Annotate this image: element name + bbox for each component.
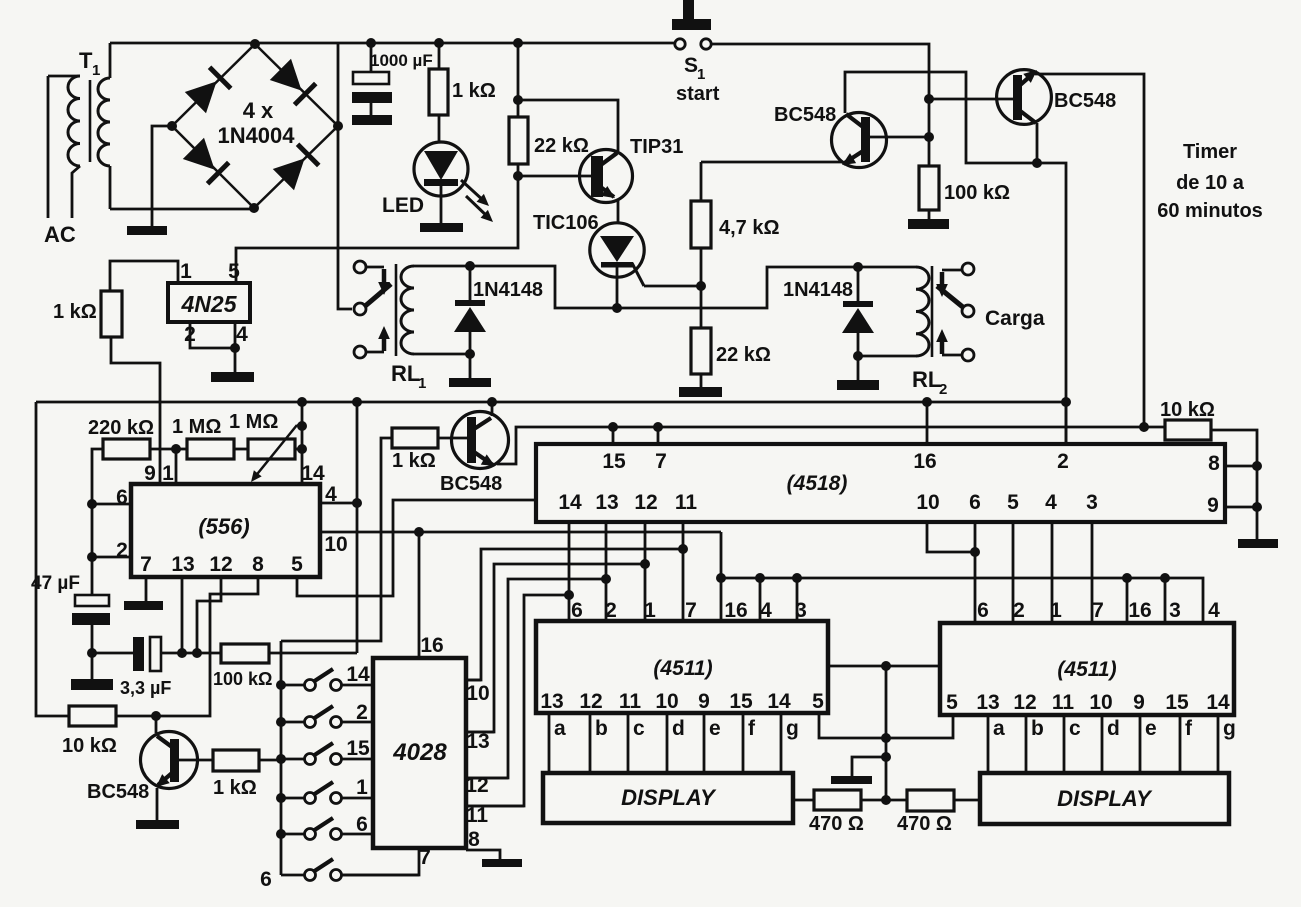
label 4511a bottom 15: [729, 690, 753, 713]
label 4518 bottom pin 5: [1007, 491, 1019, 514]
relay RL2 contact mid: [962, 305, 974, 317]
relay RL2 arm: [937, 286, 964, 308]
label 4028 pin8: [468, 828, 480, 851]
svg-text:(556): (556): [198, 514, 249, 539]
svg-text:10 kΩ: 10 kΩ: [1160, 399, 1215, 421]
label 4511b top 4: [1208, 599, 1220, 622]
wire 4518 pin16 up: [926, 402, 929, 444]
relay RL1 top lead arrow: [366, 267, 390, 295]
resistor R7 220k: [92, 439, 176, 595]
wire 4.7k to gate node: [700, 248, 703, 286]
wire Q4 base: [438, 437, 468, 440]
LED D5: [414, 142, 468, 223]
label 1 kOhm left: [53, 301, 97, 323]
wire 4511b pin3 up: [1164, 578, 1167, 623]
svg-text:f: f: [748, 717, 756, 740]
resistor R13 1k: [392, 428, 438, 448]
label 100 kOhm mid: [213, 669, 272, 689]
svg-text:2: 2: [605, 599, 617, 622]
wire 4518 pin13 to 4511 pin2: [605, 522, 608, 621]
wire 4N25 pin1 to 1k: [110, 261, 178, 291]
wire 4511b pin16 up: [1126, 578, 1129, 623]
label 4518 top pin 2: [1057, 450, 1069, 473]
node rail-556pin4: [352, 397, 362, 407]
svg-text:8: 8: [1208, 452, 1220, 475]
relay RL1 contact top: [354, 261, 366, 273]
svg-text:9: 9: [1133, 691, 1145, 714]
label 4028 pin13r: [466, 730, 489, 753]
label 4028 pin1: [356, 776, 368, 799]
wire 4511a segment g: [780, 713, 783, 773]
label 47uF: [31, 573, 80, 594]
switch S1 contacts: [675, 39, 711, 49]
svg-text:16: 16: [1128, 599, 1151, 622]
svg-text:14: 14: [301, 462, 325, 485]
svg-text:15: 15: [602, 450, 626, 473]
label 4028 pin10: [466, 682, 489, 705]
timer IC U2 556 box: [131, 484, 320, 577]
label 4028 pin11r: [466, 804, 489, 827]
label 3,3uF: [120, 678, 171, 698]
svg-text:b: b: [595, 717, 608, 740]
label 4518 pin9: [1207, 494, 1219, 517]
svg-text:4: 4: [236, 323, 248, 346]
wire S1 right rail: [711, 44, 929, 166]
switch S5 row 4: [281, 782, 373, 804]
wire 556 pin12 down: [197, 577, 221, 653]
wire 556 pin2: [92, 556, 131, 559]
svg-text:10 kΩ: 10 kΩ: [62, 735, 117, 757]
wire 556 pin10 bus: [320, 531, 721, 534]
resistor R6 100k: [919, 166, 939, 219]
wire bridge left node to ground: [152, 126, 172, 226]
node Q5 base node: [151, 711, 161, 721]
relay RL1 bottom arrow: [366, 326, 390, 352]
wire Q3 emitter top run: [1035, 74, 1144, 429]
svg-text:7: 7: [1092, 599, 1104, 622]
label 4511b bottom 12: [1013, 691, 1036, 714]
node rail-22k: [513, 38, 523, 48]
node mid vertical top: [881, 661, 891, 671]
wire 556 pin13 down: [181, 577, 184, 653]
node LT 4511a pin3: [792, 573, 802, 583]
svg-text:BC548: BC548: [87, 781, 149, 803]
wire 4511b pin5: [886, 715, 953, 738]
node bridge left: [167, 121, 177, 131]
svg-text:14: 14: [558, 491, 582, 514]
svg-text:1: 1: [1050, 599, 1062, 622]
ground under 1N4148 right: [837, 356, 879, 390]
label switch6: [260, 868, 272, 891]
relay RL1 arm: [364, 284, 391, 307]
node LT 4511a pin4: [755, 573, 765, 583]
ground under 22k2: [679, 387, 722, 397]
wire gate node to 22k2: [700, 286, 703, 328]
wire Q2 emitter to 4.7k: [701, 161, 843, 164]
label 4511b bottom 10: [1089, 691, 1112, 714]
bracket 4511 pin1 to 4028 pin13: [466, 564, 645, 732]
wire top rail: [255, 42, 675, 45]
node pin4: [352, 498, 362, 508]
label 4N25: [181, 291, 238, 317]
svg-text:9: 9: [698, 690, 710, 713]
label 4518 bottom pin 11: [675, 491, 698, 514]
wire rail to 556 pin4 down: [356, 402, 359, 653]
label 4028: [392, 739, 447, 766]
label 556 pin10: [324, 533, 347, 556]
svg-text:a: a: [993, 717, 1005, 740]
svg-text:a: a: [554, 717, 566, 740]
label 4028 pin6: [356, 813, 368, 836]
svg-text:6: 6: [969, 491, 981, 514]
resistor R10 100k: [221, 644, 269, 663]
ground under 4N25: [211, 372, 254, 382]
svg-text:15: 15: [729, 690, 753, 713]
label 4028 pin16: [420, 634, 443, 657]
wire 4N25 pin4: [234, 322, 237, 372]
capacitor 1000uF: [352, 43, 392, 115]
svg-text:1 kΩ: 1 kΩ: [213, 777, 257, 799]
wire 4511b segment a: [987, 715, 990, 773]
label 22 kOhm 2: [716, 344, 771, 366]
svg-text:3: 3: [795, 599, 807, 622]
wire secondary bottom to bridge: [110, 208, 254, 211]
label 4518 bottom pin 6: [969, 491, 981, 514]
label 4511a top 16: [724, 599, 747, 622]
node S1-BC548 base 2: [924, 132, 934, 142]
svg-text:(4518): (4518): [787, 472, 848, 495]
svg-text:16: 16: [724, 599, 747, 622]
switch S6 row 5: [281, 818, 373, 840]
ground 556 pin7: [124, 601, 163, 610]
wire 556 pin8 to base node: [156, 577, 258, 716]
wire rail to 556 pin14: [301, 402, 304, 484]
node rail-4518pin16: [922, 397, 932, 407]
node p13-p2: [601, 574, 611, 584]
AC label: [44, 222, 76, 247]
label 4511b top 16: [1128, 599, 1151, 622]
label segment b a: [595, 717, 608, 740]
label 1 MOhm 2: [229, 411, 278, 433]
svg-text:10: 10: [655, 690, 678, 713]
label 556 pin9: [144, 462, 156, 485]
wire 4N25 pin5 to 22k bottom: [236, 176, 518, 283]
ground under bridge: [127, 226, 167, 235]
node Q3 collector: [1032, 158, 1042, 168]
label 4511a bottom 12: [579, 690, 602, 713]
node rail-1000uF: [366, 38, 376, 48]
node rail-556pin14: [297, 397, 307, 407]
label 1N4148 left: [473, 279, 543, 301]
svg-text:11: 11: [619, 690, 642, 713]
svg-text:3: 3: [1169, 599, 1181, 622]
svg-text:100 kΩ: 100 kΩ: [213, 669, 272, 689]
label 4511a top 4: [760, 599, 772, 622]
wire emitter line to 4.7k: [700, 162, 703, 201]
label 4,7 kOhm: [719, 217, 780, 239]
svg-text:start: start: [676, 83, 720, 105]
resistor R15 470: [814, 790, 886, 810]
wire +V to RL1 common: [338, 43, 352, 309]
node 10k right vertical: [1139, 422, 1149, 432]
svg-text:2: 2: [116, 539, 128, 562]
label segment d b: [1107, 717, 1120, 740]
label segment d a: [672, 717, 685, 740]
wire 4511a segment f: [742, 713, 745, 773]
resistor R16 470: [886, 790, 980, 811]
relay RL1 contact bottom: [354, 346, 366, 358]
svg-text:10: 10: [466, 682, 489, 705]
label 4511b top 7: [1092, 599, 1104, 622]
bridge label 4 x: [243, 98, 274, 123]
label segment a a: [554, 717, 566, 740]
svg-text:9: 9: [1207, 494, 1219, 517]
node switch common 4: [276, 793, 286, 803]
wire 556 pin6: [92, 503, 131, 506]
label 4511b bottom 5: [946, 691, 958, 714]
wire Q3 base: [929, 98, 1014, 101]
relay RL1 coil: [401, 266, 414, 354]
svg-text:BC548: BC548: [774, 104, 836, 126]
label 4511a top 7: [685, 599, 697, 622]
label 60 minutos: [1157, 200, 1263, 222]
svg-text:g: g: [1223, 717, 1236, 740]
label 4028 pin14: [346, 663, 370, 686]
wire 4511b segment g: [1217, 715, 1220, 773]
svg-text:c: c: [633, 717, 645, 740]
wire secondary top to bridge: [110, 42, 255, 45]
svg-text:4: 4: [1045, 491, 1057, 514]
bracket 4511 pin6 to 4028 pin11: [466, 595, 569, 806]
counter IC U3 4518 box: [536, 444, 1225, 522]
wire 4028 pin11: [466, 805, 524, 808]
bridge rectifier diamond wires: [172, 44, 338, 208]
svg-text:9: 9: [144, 462, 156, 485]
wire commons to 1k3: [281, 438, 392, 641]
diode D7 1N4148: [842, 267, 874, 356]
label 4511a top 3: [795, 599, 807, 622]
wire 4518 pin8: [1225, 465, 1257, 468]
wire 4518 pin12 to 4511 pin1: [644, 522, 647, 621]
label 556 pin7: [140, 553, 152, 576]
label 4511a bottom 5: [812, 690, 824, 713]
wire 4511b segment f: [1179, 715, 1182, 773]
label 4511b top 6: [977, 599, 989, 622]
svg-text:f: f: [1185, 717, 1193, 740]
wire main rail: [36, 401, 1070, 404]
label segment e b: [1145, 717, 1157, 740]
svg-text:TIP31: TIP31: [630, 136, 683, 158]
node rail-Q4 collector: [487, 397, 497, 407]
node mid-470: [881, 795, 891, 805]
label (4518): [787, 472, 848, 495]
label 4511a bottom 10: [655, 690, 678, 713]
node LT 4511b pin3: [1160, 573, 1170, 583]
svg-text:Timer: Timer: [1183, 141, 1237, 163]
svg-text:14: 14: [767, 690, 791, 713]
label 1 kOhm Q4: [392, 450, 436, 472]
svg-text:DISPLAY: DISPLAY: [1057, 786, 1153, 811]
wire 4511a segment a: [548, 713, 551, 773]
svg-text:1: 1: [180, 260, 192, 283]
wire 4518 pin3 to 4511b pin7: [1091, 522, 1094, 623]
label 4511b top 1: [1050, 599, 1062, 622]
node 1M right: [297, 444, 307, 454]
label start: [676, 83, 720, 105]
svg-text:1 kΩ: 1 kΩ: [452, 80, 496, 102]
svg-text:10: 10: [916, 491, 939, 514]
resistor R9 1M pot: [248, 439, 302, 459]
relay RL2 contact bottom: [962, 349, 974, 361]
svg-text:1: 1: [644, 599, 656, 622]
svg-text:e: e: [709, 717, 721, 740]
svg-text:7: 7: [419, 846, 431, 869]
svg-text:1 kΩ: 1 kΩ: [392, 450, 436, 472]
svg-text:13: 13: [466, 730, 489, 753]
wire rail left drop to 10k: [36, 402, 69, 716]
svg-text:4 x: 4 x: [243, 98, 274, 123]
svg-text:10: 10: [324, 533, 347, 556]
transformer T1 secondary winding: [98, 43, 110, 209]
svg-text:12: 12: [634, 491, 657, 514]
svg-text:14: 14: [346, 663, 370, 686]
svg-text:TIC106: TIC106: [533, 212, 599, 234]
ground under 47uF: [71, 679, 113, 690]
svg-text:de 10 a: de 10 a: [1176, 172, 1245, 194]
svg-text:3: 3: [1086, 491, 1098, 514]
wire 4511a segment d: [666, 713, 669, 773]
bridge diode D2 (top-right edge): [270, 59, 316, 105]
label segment f b: [1185, 717, 1193, 740]
svg-text:7: 7: [655, 450, 667, 473]
svg-text:12: 12: [209, 553, 232, 576]
wire 4511b segment c: [1063, 715, 1066, 773]
wire 556 pin1: [175, 449, 178, 484]
wire Q4 collector to rail: [491, 402, 494, 416]
node RL1-diode bottom: [465, 349, 475, 359]
resistor R3 22k: [509, 117, 528, 176]
svg-text:1N4148: 1N4148: [473, 279, 543, 301]
wire 4518 pin2 up segment: [1065, 402, 1068, 444]
label BC548 Q3: [1054, 90, 1116, 112]
label 1 MOhm 1: [172, 416, 221, 438]
resistor R2 1k: [429, 43, 448, 142]
label segment g b: [1223, 717, 1236, 740]
bracket 4511 pin7 to 4028 pin10: [466, 549, 683, 680]
label 556 pin8: [252, 553, 264, 576]
wire 22k-top to TIP31 collector: [518, 100, 618, 151]
relay RL2 bottom arrow: [936, 329, 962, 355]
label 4518 bottom pin 10: [916, 491, 939, 514]
svg-text:11: 11: [675, 491, 698, 514]
svg-text:1000 µF: 1000 µF: [370, 51, 433, 70]
label 556 pin5: [291, 553, 303, 576]
relay RL2 coil: [916, 267, 929, 356]
wire 22k-bottom to TIP31 base: [518, 175, 592, 178]
label RL2: [912, 367, 947, 398]
label (4511) b: [1057, 658, 1116, 681]
wire 4N25 pin2: [190, 322, 235, 348]
svg-text:5: 5: [1007, 491, 1019, 514]
label 4518 top pin 16: [913, 450, 936, 473]
label 4511a bottom 11: [619, 690, 642, 713]
wire 100k to pin4 vertical: [269, 652, 357, 655]
wire 10k to 4518 pins 8 9: [1211, 430, 1257, 539]
wire 4518 pin5 to 4511b pin2: [1012, 522, 1015, 623]
svg-text:12: 12: [1013, 691, 1036, 714]
svg-text:5: 5: [946, 691, 958, 714]
label 4511b bottom 13: [976, 691, 999, 714]
svg-text:47 µF: 47 µF: [31, 573, 80, 594]
svg-text:6: 6: [977, 599, 989, 622]
node pin12-3.3uF: [192, 648, 202, 658]
svg-text:LED: LED: [382, 194, 424, 217]
wire 4511a pin5: [819, 713, 886, 738]
svg-text:AC: AC: [44, 222, 76, 247]
node switch common 1: [276, 680, 286, 690]
ground under 1N4148 left: [449, 354, 491, 387]
svg-text:g: g: [786, 717, 799, 740]
svg-text:1: 1: [418, 375, 426, 392]
diode D6 1N4148: [454, 266, 486, 354]
transformer T1 label: [79, 48, 100, 79]
wire 4518 pin9: [1225, 506, 1257, 509]
wire 4028 pin10: [466, 679, 481, 682]
bridge diode D1 (left-top edge): [185, 67, 231, 113]
svg-text:RL: RL: [391, 361, 420, 386]
svg-text:13: 13: [595, 491, 618, 514]
LED arrows: [461, 180, 493, 222]
relay RL1 core: [395, 264, 398, 356]
svg-text:(4511): (4511): [1057, 658, 1116, 681]
node pin2: [87, 552, 97, 562]
wire 4511b segment e: [1139, 715, 1142, 773]
wire Q4 emitter to 4518: [497, 427, 1165, 464]
wire 4511b segment d: [1101, 715, 1104, 773]
wire 4518 pin15: [612, 427, 615, 444]
optocoupler U1 4N25 box: [168, 283, 250, 322]
wire 4518 pin4 to 4511b pin1: [1051, 522, 1054, 623]
wire mid ground stub: [852, 757, 886, 776]
label 4518 bottom pin 3: [1086, 491, 1098, 514]
label BC548 Q4: [440, 473, 502, 495]
label 4511a bottom 14: [767, 690, 791, 713]
thyristor TIC106: [590, 223, 644, 308]
ground bottom right: [1238, 539, 1278, 548]
label 4511a bottom 9: [698, 690, 710, 713]
label 4N25 pin4: [236, 323, 248, 346]
bridge diode D4 (bottom-right edge): [273, 144, 319, 190]
svg-text:470 Ω: 470 Ω: [897, 813, 952, 835]
svg-text:14: 14: [1206, 691, 1230, 714]
wire 4028 pin8 gnd: [466, 850, 500, 859]
label segment g a: [786, 717, 799, 740]
wire RL1 coil bottom: [414, 353, 470, 356]
svg-text:S: S: [684, 54, 698, 77]
node rail-4518pin2: [1061, 397, 1071, 407]
wire 4518 pin6 to 4511b pin6: [974, 522, 977, 623]
node 22k bottom: [513, 171, 523, 181]
svg-text:DISPLAY: DISPLAY: [621, 785, 717, 810]
svg-text:6: 6: [356, 813, 368, 836]
label 100 kOhm right: [944, 182, 1010, 204]
svg-text:5: 5: [812, 690, 824, 713]
node RL2 bottom: [853, 351, 863, 361]
node switch common 5: [276, 829, 286, 839]
label 556 pin6: [116, 486, 128, 509]
svg-text:e: e: [1145, 717, 1157, 740]
label 556 pin13: [171, 553, 194, 576]
